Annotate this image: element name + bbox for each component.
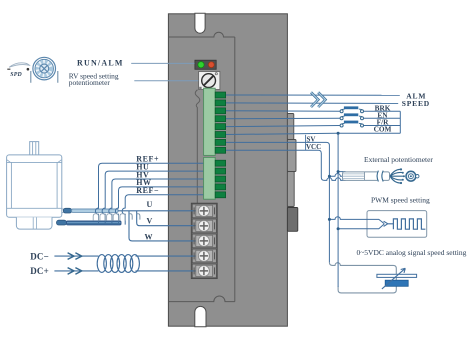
- RV potentiometer dial: [202, 74, 216, 88]
- PWM square wave: [393, 219, 425, 229]
- analog loop wire: [329, 262, 396, 293]
- svg-text:REF−: REF−: [136, 186, 159, 195]
- switch F/R: [340, 121, 363, 127]
- svg-text:SPD: SPD: [10, 72, 22, 78]
- ALM/SPEED break chevrons: [311, 92, 325, 107]
- wire EN right: [364, 117, 401, 119]
- junction COM-PWM: [337, 227, 340, 230]
- svg-text:External potentiometer: External potentiometer: [364, 155, 433, 164]
- wire BRK left: [226, 110, 340, 113]
- phase cable connector: [57, 220, 67, 225]
- pin F/R: [215, 124, 225, 130]
- wire REF+ riser from phase cable: [95, 163, 215, 224]
- pin BRK: [215, 108, 225, 114]
- driver side profile terminal block: [287, 208, 297, 232]
- external potentiometer body: [406, 171, 416, 181]
- pin HU: [215, 168, 225, 174]
- hall cable connector: [63, 208, 71, 213]
- wire ALM: [226, 94, 400, 96]
- cable break marks: [377, 171, 383, 182]
- wire SPEED: [226, 102, 399, 105]
- wire HU cable staple: [100, 214, 105, 221]
- wire REF- riser from phase cable: [122, 195, 215, 225]
- pin VCC: [215, 147, 225, 153]
- VCC label tick: [305, 143, 307, 151]
- DC- flow arrows: [68, 253, 82, 260]
- motor body inner edges: [10, 162, 12, 208]
- motor body: [7, 155, 62, 217]
- svg-text:COM: COM: [374, 125, 392, 134]
- switch BRK: [340, 106, 363, 112]
- wire HW cable staple: [113, 214, 118, 221]
- switch EN: [340, 113, 363, 119]
- svg-text:DC+: DC+: [30, 266, 49, 276]
- junction COM-pot: [337, 170, 340, 173]
- wire DC- right: [136, 255, 198, 257]
- wire HU riser from phase cable: [102, 171, 215, 225]
- wire COM: [226, 133, 401, 134]
- external potentiometer cable sheath: [343, 172, 390, 181]
- driver side profile segment 2: [287, 140, 296, 172]
- wire COM vertical: [337, 133, 339, 287]
- terminal screw U: [194, 205, 214, 216]
- terminal U cell: [192, 204, 216, 218]
- RV potentiometer plate: [199, 72, 220, 90]
- terminal DC+ cell: [192, 264, 216, 278]
- driver body: [168, 14, 287, 326]
- driver bottom notch: [195, 306, 206, 326]
- dial magnifier icon: [31, 57, 58, 83]
- motor shaft: [30, 142, 39, 155]
- SV label tick: [305, 135, 307, 142]
- terminal screw V: [194, 220, 214, 231]
- terminal screw DC+: [194, 265, 214, 276]
- svg-text:PWM speed setting: PWM speed setting: [371, 196, 430, 205]
- LED bezel: [195, 60, 216, 69]
- wire SV with analog loop: [226, 142, 330, 262]
- PWM box: [367, 211, 427, 238]
- svg-text:V: V: [147, 216, 153, 225]
- motor corner bevels: [7, 160, 61, 163]
- terminal screw W: [194, 235, 214, 246]
- analog pot track: [377, 274, 417, 277]
- driver front panel bottom edge: [168, 296, 234, 302]
- wire COM tap to ext pot: [338, 171, 345, 173]
- driver front panel top edge: [168, 32, 234, 37]
- wire F/R right: [364, 125, 401, 127]
- svg-text:potentiometer: potentiometer: [69, 78, 111, 87]
- driver side profile segment 1: [287, 114, 293, 140]
- wire REF+ cable staple: [93, 214, 98, 221]
- twisted pair coil: [97, 255, 139, 273]
- pin EN: [215, 116, 225, 122]
- svg-text:RUN/ALM: RUN/ALM: [77, 59, 124, 68]
- junction SV-pot: [328, 175, 331, 178]
- motor flange line: [7, 161, 62, 163]
- wire VCC: [226, 150, 346, 180]
- analog pot wiper arrow: [382, 268, 405, 289]
- wire COM tap to PWM: [338, 224, 384, 229]
- wire REF- cable staple: [120, 214, 125, 221]
- driver side profile segment 3: [287, 172, 294, 207]
- wire F/R left: [226, 126, 340, 127]
- driver top notch: [195, 13, 205, 33]
- LED RUN green: [198, 62, 204, 68]
- phase cable sheath: [67, 221, 122, 225]
- wire SV tap to ext pot: [329, 174, 345, 177]
- terminal V cell: [192, 219, 216, 233]
- driver front panel right edge: [234, 37, 236, 302]
- pin HW: [215, 184, 225, 190]
- svg-text:SPEED: SPEED: [402, 99, 430, 108]
- pin SV: [215, 139, 225, 145]
- wire V vertical: [137, 211, 198, 226]
- pin ALM: [215, 92, 225, 98]
- speed logo icon: [7, 63, 29, 78]
- pin HV: [215, 176, 225, 182]
- svg-text:DC−: DC−: [30, 251, 49, 261]
- terminal screw DC-: [194, 250, 214, 261]
- terminal W cell: [192, 234, 216, 248]
- PWM input arrow: [384, 221, 394, 226]
- analog pot element: [385, 280, 408, 286]
- hall cable stub: [62, 208, 65, 210]
- junction SV-PWM: [328, 218, 331, 221]
- pin SPEED: [215, 100, 225, 106]
- wire DC+ left: [54, 270, 98, 272]
- switch ladder right bus: [399, 111, 401, 133]
- svg-text:U: U: [147, 200, 153, 209]
- signal connector upper body: [204, 88, 216, 155]
- panel squiggle relief: [195, 90, 200, 204]
- pin REF-: [215, 192, 225, 198]
- junction COM tap: [337, 132, 340, 135]
- signal connector lower body: [204, 157, 216, 199]
- wire HW riser from phase cable: [115, 187, 215, 225]
- wire HV cable staple: [107, 214, 112, 221]
- wire DC- left: [54, 255, 98, 257]
- LED ALM red: [208, 62, 214, 68]
- hall cable sheath: [72, 209, 118, 212]
- wire SV tap to PWM: [329, 217, 384, 224]
- wire V staple: [137, 214, 140, 220]
- wires inside sheath: [343, 174, 365, 179]
- motor base block: [16, 217, 52, 229]
- power terminal block frame: [191, 203, 217, 278]
- svg-text:0~5VDC analog signal speed set: 0~5VDC analog signal speed setting: [357, 248, 467, 257]
- wire HV riser from phase cable: [109, 179, 216, 225]
- pointer line RUN/ALM: [131, 62, 194, 64]
- DC+ flow arrows: [68, 268, 82, 275]
- svg-text:VCC: VCC: [306, 143, 321, 151]
- wire W vertical: [129, 211, 198, 241]
- wire U: [118, 210, 198, 212]
- pin COM: [215, 132, 225, 138]
- external potentiometer wire tassel: [390, 169, 404, 183]
- pointer line RV potentiometer: [134, 80, 198, 82]
- wire DC+ right: [136, 270, 198, 272]
- svg-text:W: W: [145, 233, 153, 242]
- wire EN left: [226, 117, 340, 119]
- pin REF+: [215, 160, 225, 166]
- wire W staple: [129, 214, 132, 220]
- terminal DC- cell: [192, 249, 216, 263]
- wire BRK right: [364, 110, 401, 112]
